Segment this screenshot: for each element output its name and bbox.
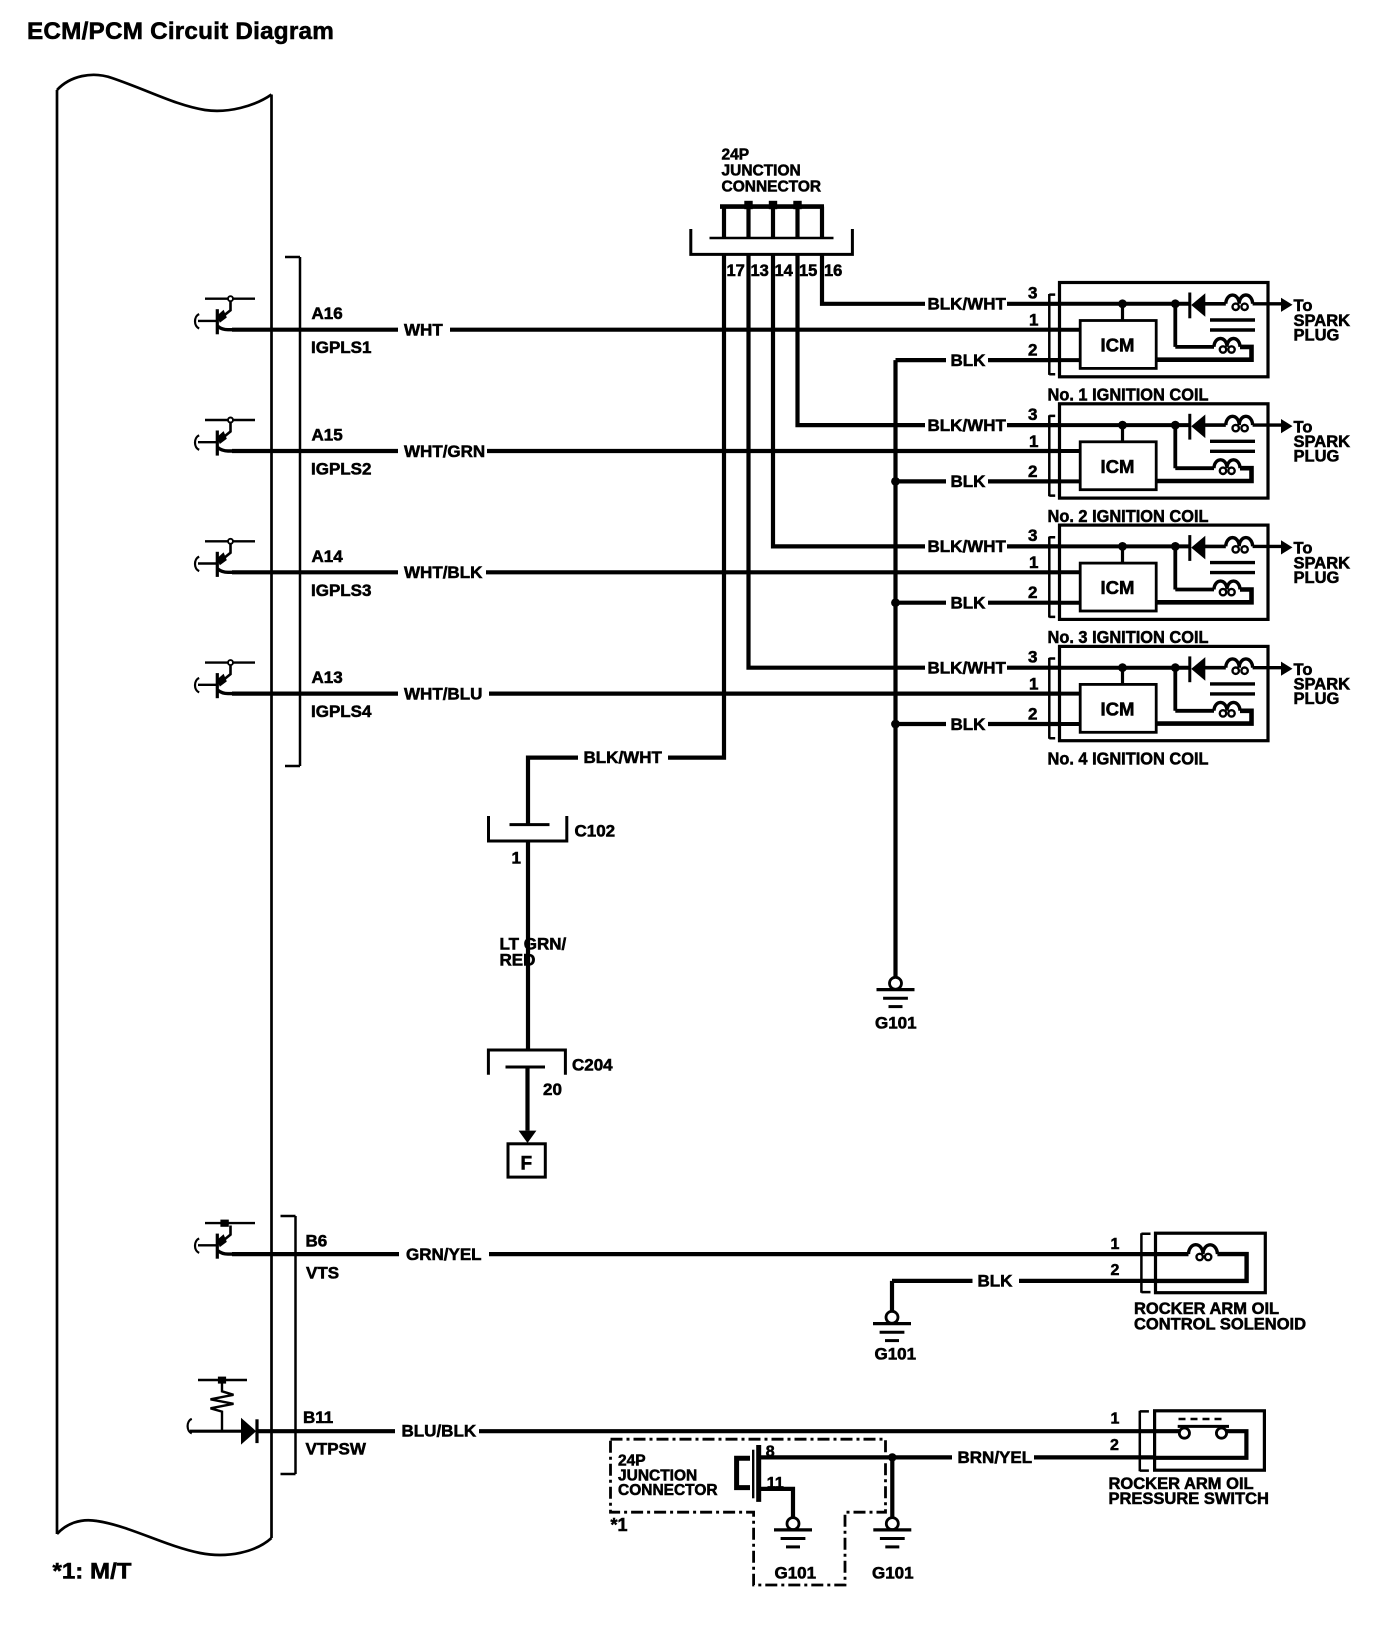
svg-text:IGPLS3: IGPLS3 — [311, 581, 371, 600]
wire BLK coil3 pin2 — [891, 598, 900, 607]
svg-text:VTPSW: VTPSW — [306, 1439, 367, 1458]
ground G101 pin11 — [774, 1518, 812, 1547]
svg-text:No. 3 IGNITION COIL: No. 3 IGNITION COIL — [1048, 627, 1209, 647]
svg-text:WHT: WHT — [404, 321, 443, 340]
wire BLK coil1 pin2 — [896, 358, 947, 362]
svg-text:BLK: BLK — [978, 1271, 1014, 1290]
svg-text:G101: G101 — [875, 1344, 917, 1363]
svg-text:*1: M/T: *1: M/T — [53, 1559, 133, 1584]
No.4 ignition coil — [1028, 646, 1350, 740]
svg-text:A14: A14 — [312, 547, 344, 566]
wire pin17 BLK/WHT down to C102 — [668, 254, 724, 757]
solenoid coil L1 — [1189, 1245, 1218, 1254]
wire LT GRN/RED — [526, 841, 530, 1050]
junction bus dots — [744, 201, 752, 209]
wire B6 GRN/YEL — [232, 1252, 399, 1256]
svg-text:A16: A16 — [312, 304, 343, 323]
svg-text:17: 17 — [727, 262, 745, 280]
svg-text:2: 2 — [1110, 1437, 1119, 1454]
wire pin16 BLK/WHT to No.1 coil — [822, 254, 925, 303]
wire to F — [525, 1067, 529, 1131]
transistor Q2 (IGPLS2 driver) — [195, 418, 255, 456]
wire BRN/YEL ground drop — [888, 1453, 896, 1461]
ground G101 solenoid — [873, 1311, 911, 1340]
destination F box — [508, 1144, 545, 1177]
24P junction connector (lower) box — [611, 1439, 886, 1585]
transistor Q3 (IGPLS3 driver) — [195, 539, 255, 577]
svg-text:No. 1 IGNITION COIL: No. 1 IGNITION COIL — [1048, 385, 1209, 405]
svg-text:ECM/PCM Circuit Diagram: ECM/PCM Circuit Diagram — [27, 18, 334, 45]
svg-text:2: 2 — [1111, 1262, 1120, 1279]
svg-text:F: F — [521, 1154, 533, 1175]
svg-text:GRN/YEL: GRN/YEL — [406, 1245, 482, 1264]
ECM connector bracket A — [285, 257, 300, 766]
ECM connector bracket B — [281, 1216, 296, 1474]
svg-text:20: 20 — [543, 1080, 562, 1099]
svg-text:BLK: BLK — [951, 715, 987, 734]
wire pin8 BRN/YEL — [761, 1455, 952, 1459]
24P junction connector symbol — [691, 207, 853, 255]
svg-text:CONTROL SOLENOID: CONTROL SOLENOID — [1134, 1316, 1306, 1334]
svg-text:BLK/WHT: BLK/WHT — [584, 748, 663, 767]
ground G101 switch — [873, 1518, 911, 1547]
svg-text:PRESSURE SWITCH: PRESSURE SWITCH — [1109, 1490, 1269, 1508]
svg-text:C204: C204 — [572, 1056, 613, 1075]
wire pin11 to ground — [761, 1489, 793, 1518]
svg-text:WHT/BLU: WHT/BLU — [404, 684, 482, 703]
svg-text:IGPLS4: IGPLS4 — [311, 702, 372, 721]
svg-text:No. 4 IGNITION COIL: No. 4 IGNITION COIL — [1048, 748, 1209, 768]
connector C102 — [510, 823, 550, 826]
junction connector symbol (lower) — [737, 1458, 750, 1487]
resistor R1 — [211, 1383, 234, 1431]
svg-text:1: 1 — [1111, 1236, 1120, 1253]
svg-text:WHT/BLK: WHT/BLK — [404, 563, 483, 582]
svg-text:A13: A13 — [312, 668, 343, 687]
wire B11 BLU/BLK — [258, 1429, 395, 1433]
svg-text:No. 2 IGNITION COIL: No. 2 IGNITION COIL — [1048, 506, 1209, 526]
svg-text:BLK: BLK — [951, 472, 987, 491]
svg-text:CONNECTOR: CONNECTOR — [618, 1482, 718, 1499]
svg-text:G101: G101 — [875, 1014, 917, 1033]
No.3 ignition coil — [1028, 525, 1350, 619]
wire pin14 BLK/WHT to No.3 coil — [773, 254, 925, 546]
connector C204 — [488, 1050, 565, 1075]
diode D1 — [241, 1418, 256, 1445]
svg-text:IGPLS1: IGPLS1 — [311, 338, 371, 357]
transistor Q4 (IGPLS4 driver) — [195, 660, 255, 698]
wire A15 WHT/GRN — [232, 449, 398, 453]
svg-text:15: 15 — [799, 262, 817, 280]
ground G101 main — [877, 977, 915, 1006]
svg-text:BLK/WHT: BLK/WHT — [928, 416, 1007, 435]
svg-text:BLK: BLK — [951, 351, 987, 370]
wire BLK coil2 pin2 — [891, 477, 900, 486]
svg-text:24P: 24P — [722, 147, 750, 164]
svg-text:1: 1 — [1111, 1410, 1120, 1427]
svg-text:C102: C102 — [575, 822, 616, 841]
svg-text:G101: G101 — [775, 1563, 817, 1582]
svg-text:*1: *1 — [611, 1515, 628, 1535]
svg-text:IGPLS2: IGPLS2 — [311, 460, 371, 479]
No.1 ignition coil — [1028, 283, 1350, 377]
wire BLK coil4 pin2 — [891, 720, 900, 729]
svg-text:G101: G101 — [872, 1563, 914, 1582]
svg-text:13: 13 — [751, 262, 769, 280]
No.2 ignition coil — [1028, 404, 1350, 498]
svg-text:VTS: VTS — [306, 1264, 339, 1283]
BLK ground bus — [893, 360, 897, 977]
svg-text:JUNCTION: JUNCTION — [722, 163, 801, 180]
wire BLK solenoid ground — [892, 1279, 973, 1283]
svg-text:B11: B11 — [303, 1408, 333, 1427]
svg-text:WHT/GRN: WHT/GRN — [404, 442, 485, 461]
svg-text:RED: RED — [500, 951, 536, 970]
svg-text:1: 1 — [512, 849, 521, 868]
wire A14 WHT/BLK — [232, 570, 398, 574]
svg-text:BLK/WHT: BLK/WHT — [928, 295, 1007, 314]
wire pin15 BLK/WHT to No.2 coil — [798, 254, 926, 425]
svg-text:BLK/WHT: BLK/WHT — [928, 659, 1007, 678]
wire pin13 BLK/WHT to No.4 coil — [749, 254, 926, 667]
svg-text:B6: B6 — [306, 1232, 328, 1251]
svg-text:A15: A15 — [312, 426, 343, 445]
svg-text:CONNECTOR: CONNECTOR — [722, 179, 822, 196]
wire A13 WHT/BLU — [232, 691, 398, 695]
switch S1 — [1179, 1418, 1225, 1421]
transistor Q1 (IGPLS1 driver) — [195, 296, 255, 334]
transistor Q5 (VTS driver) — [195, 1223, 255, 1259]
svg-text:BRN/YEL: BRN/YEL — [958, 1448, 1033, 1467]
svg-text:16: 16 — [824, 262, 842, 280]
svg-text:BLK: BLK — [951, 594, 987, 613]
svg-text:BLK/WHT: BLK/WHT — [928, 537, 1007, 556]
wire A16 WHT — [232, 328, 398, 332]
svg-text:14: 14 — [775, 262, 794, 280]
ECM/PCM module outline — [57, 75, 272, 1555]
zener input network B11 — [198, 1379, 247, 1381]
svg-text:BLU/BLK: BLU/BLK — [402, 1421, 477, 1440]
